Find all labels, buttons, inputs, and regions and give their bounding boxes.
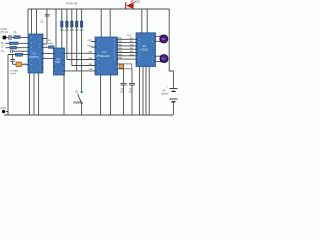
resistor bank R6 <box>71 21 73 27</box>
wire inhibit bracket IC1 <box>43 39 47 45</box>
IC4 pin ticks <box>136 36 156 62</box>
IC4 L293D <box>136 33 156 67</box>
wire IC3 bottom pin 2 <box>110 75 112 115</box>
capacitor C4 box <box>16 53 23 56</box>
resistor bank R5 <box>66 21 68 27</box>
net labels IC3 to IC4 bus <box>118 38 123 60</box>
wire C4 row <box>8 54 28 56</box>
resistor bank R7 <box>76 21 78 27</box>
IC1 pin ticks <box>28 37 43 68</box>
wire switch to ground <box>81 104 83 115</box>
wire IC3 bottom pin 1 <box>100 75 102 115</box>
svg-text:R4-R8 10K: R4-R8 10K <box>66 3 78 6</box>
wire C8 to ground <box>123 85 125 115</box>
svg-text:IC3: IC3 <box>103 50 108 54</box>
wire IC4 bottom pins <box>140 67 150 116</box>
wire IC3 to IC4 bus <box>118 39 137 59</box>
resistor bank R8 <box>80 21 82 27</box>
svg-text:22p: 22p <box>120 91 125 94</box>
wire IC1 to IC2 row b <box>43 57 54 59</box>
wire IC4 to motor M1 <box>156 36 161 41</box>
wire to IC2 top <box>55 9 57 48</box>
IC2 CD4069 <box>54 48 65 75</box>
wire C9 to ground <box>131 85 133 115</box>
wire bottom ground rail <box>4 114 173 116</box>
wire IC4 to motor M2 <box>156 56 161 61</box>
IC3 pin ticks <box>95 39 118 71</box>
svg-text:XTAL: XTAL <box>22 64 28 67</box>
wire IC3 top pin a <box>100 9 102 37</box>
wire top supply rail <box>28 8 169 10</box>
capacitor C1 plates <box>9 35 11 40</box>
svg-text:4069: 4069 <box>55 62 61 64</box>
wire left ground branch <box>7 55 9 116</box>
pin labels IC3 left <box>88 40 94 71</box>
motor M2 <box>160 54 169 62</box>
svg-text:300K: 300K <box>48 43 54 45</box>
svg-text:10K 10K 10K 10K 10K: 10K 10K 10K 10K 10K <box>60 29 84 32</box>
svg-text:battery: battery <box>161 92 169 95</box>
wire crystal XTAL1 link <box>22 63 29 65</box>
svg-text:IC4: IC4 <box>142 44 147 48</box>
wire bypass branch <box>46 9 48 44</box>
wire IC4 top pin b <box>146 9 148 33</box>
wire right supply down to battery <box>169 9 173 88</box>
pin labels IC4 left <box>130 38 135 57</box>
svg-text:22p: 22p <box>129 91 134 94</box>
wire C2 branch <box>13 55 17 65</box>
wire resistor bank R8 <box>81 9 83 91</box>
wire battery jack drop <box>6 112 8 116</box>
LED1 <box>126 0 141 9</box>
resistor bank R4 <box>61 21 63 27</box>
battery BATT.1 plates <box>170 89 178 102</box>
wire R2 row <box>6 42 29 44</box>
wire IC1 top pin 1 <box>31 9 33 34</box>
capacitor C2 plates <box>10 60 15 62</box>
wire resistor bank R5 <box>66 9 68 60</box>
wire R3a row to IC2 <box>43 46 49 48</box>
wire mesh row 3 to IC3 <box>72 65 95 67</box>
svg-text:GND: GND <box>89 69 94 71</box>
wire IC1 top pin 2 <box>36 9 38 34</box>
svg-text:L293D: L293D <box>141 49 149 52</box>
resistor R3a series <box>49 46 55 49</box>
capacitor C9 plates <box>129 83 135 85</box>
svg-text:MT8870: MT8870 <box>29 56 39 59</box>
IC1 MT8870 <box>28 34 43 73</box>
wire C3 row <box>12 50 28 52</box>
switch S1 <box>73 90 82 104</box>
svg-text:ON/OFF: ON/OFF <box>73 102 82 104</box>
wire IC1 bottom pin 2 <box>33 73 35 115</box>
wire R3 row <box>6 47 29 49</box>
wire resistor bank R7 <box>76 9 78 71</box>
audio jack J1 <box>0 28 8 40</box>
wire IC1 bottom pin 1 <box>29 73 31 115</box>
battery terminal dot <box>0 107 6 113</box>
wire IC2 bottom to ground <box>63 71 65 115</box>
svg-text:GND: GND <box>0 107 6 110</box>
svg-text:3.57MHz: 3.57MHz <box>10 70 19 72</box>
capacitor C7 bypass plates <box>45 14 50 16</box>
capacitor C8 plates <box>121 83 127 85</box>
wire battery minus to ground rail <box>172 102 174 115</box>
capacitor C3 plates <box>10 50 12 53</box>
svg-text:IC1: IC1 <box>33 52 38 56</box>
wire mesh row 1 to IC3 <box>65 52 96 54</box>
IC2 pin ticks <box>54 53 65 71</box>
wire IC3 top pin b <box>109 9 111 37</box>
IC3 ATMEGA16 <box>95 37 118 75</box>
wire IC1 bottom pin 3 <box>38 73 40 115</box>
motor M1 <box>160 35 169 43</box>
wire IC3 left stubs <box>91 42 95 48</box>
wire jack input row <box>6 36 9 38</box>
wire mesh row 4 to IC3 <box>65 70 96 72</box>
svg-text:crystal: crystal <box>10 72 17 75</box>
wire IC4 top pin a <box>141 9 143 33</box>
resistor R3 <box>10 46 17 49</box>
wire resistor bank R4 <box>61 9 63 48</box>
resistor R1 <box>14 36 21 39</box>
wire resistor bank R6 <box>71 9 73 66</box>
svg-text:IC2: IC2 <box>56 58 61 61</box>
svg-text:ATMEGA16: ATMEGA16 <box>96 54 110 58</box>
wire mesh row 2 to IC3 <box>67 59 95 61</box>
svg-text:RST: RST <box>88 40 93 42</box>
wire rail corner left down to IC1 <box>27 9 29 34</box>
wire crystal XTAL2 loop <box>118 64 133 83</box>
crystal XTAL2 <box>119 64 123 68</box>
crystal XTAL1 <box>16 62 22 67</box>
svg-text:LED1: LED1 <box>134 0 141 3</box>
resistor R2 <box>9 42 18 45</box>
wire IC1 to IC2 row a <box>43 53 54 55</box>
